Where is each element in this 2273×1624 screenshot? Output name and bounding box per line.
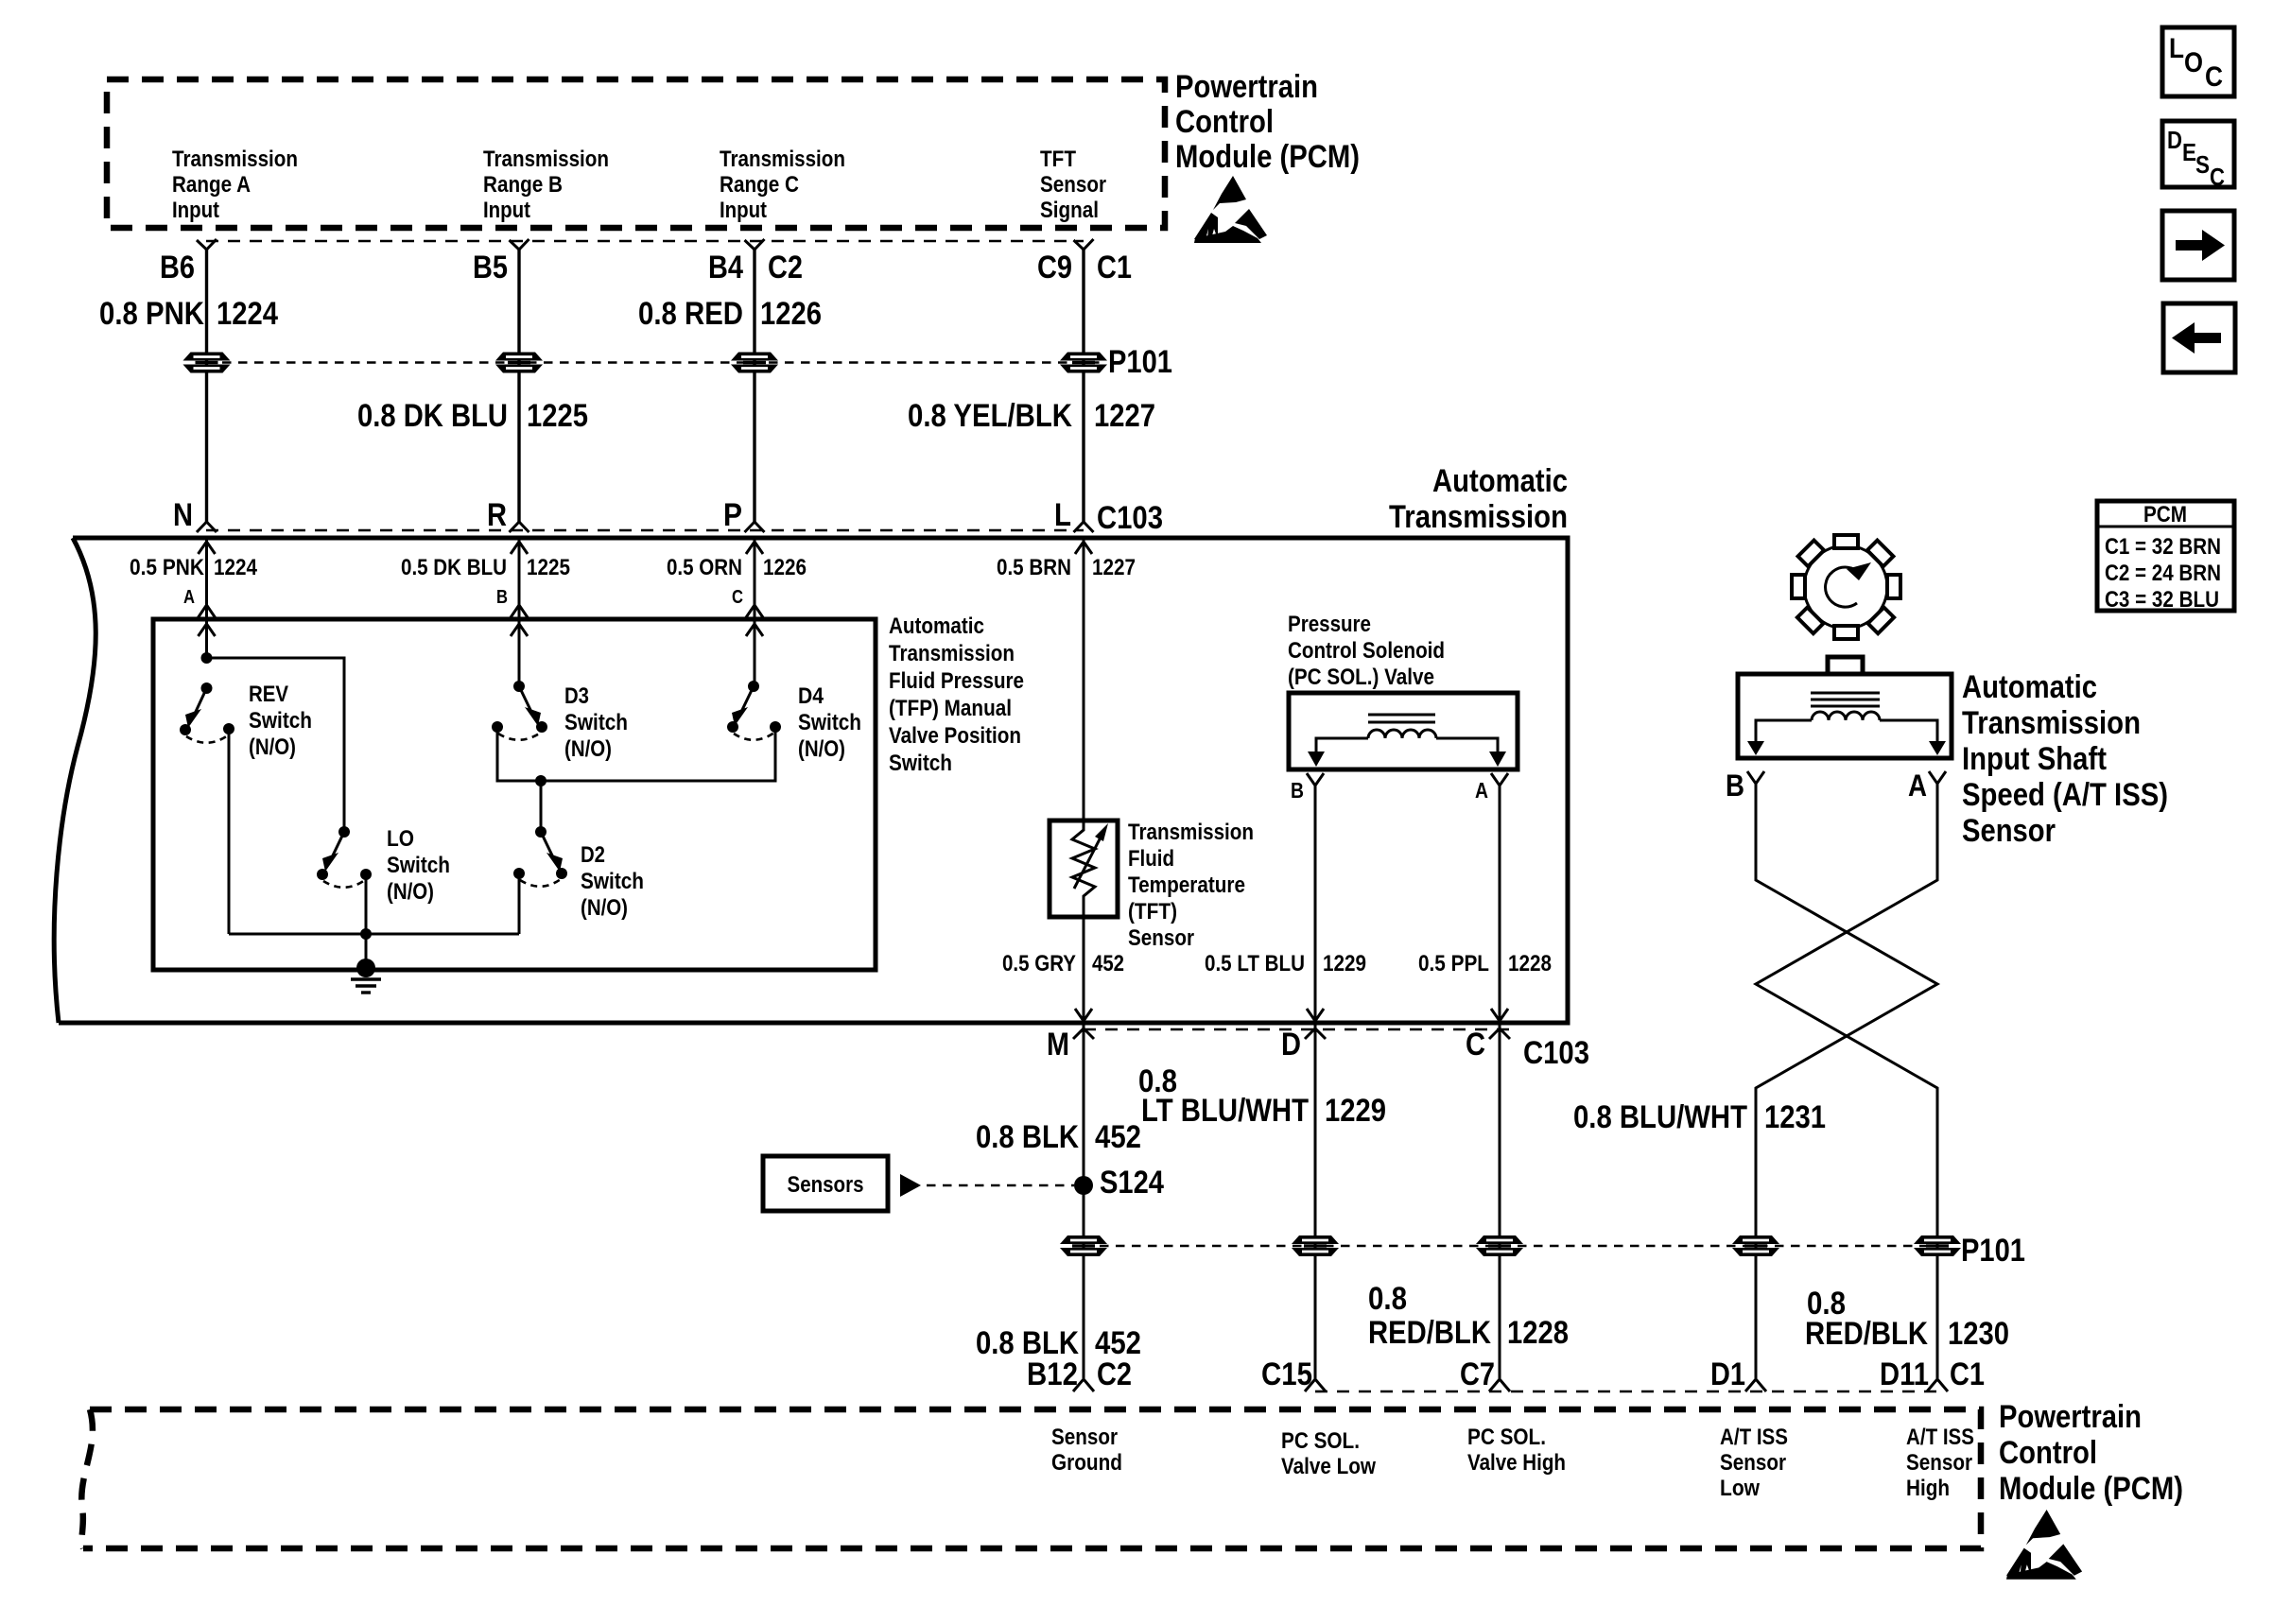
svg-text:Sensor: Sensor (1051, 1425, 1118, 1450)
TFT sensor (1050, 821, 1118, 917)
svg-text:1225: 1225 (527, 555, 570, 580)
D4 switch (727, 681, 781, 740)
pin fork solenoid B (1307, 773, 1324, 786)
svg-text:L: L (2169, 33, 2184, 64)
svg-text:Input: Input (483, 198, 530, 223)
svg-text:(PC SOL.) Valve: (PC SOL.) Valve (1288, 665, 1434, 690)
svg-text:Sensor: Sensor (1962, 813, 2056, 849)
svg-text:Transmission: Transmission (720, 147, 845, 172)
svg-text:(N/O): (N/O) (798, 736, 845, 762)
PCM top dashed box (107, 79, 1165, 228)
arrow up on wire R (511, 542, 528, 554)
pin fork P (745, 522, 765, 532)
svg-text:1230: 1230 (1948, 1316, 2009, 1352)
svg-text:Low: Low (1720, 1476, 1760, 1501)
svg-text:Switch: Switch (249, 708, 312, 734)
wire ISS B crossover (1756, 784, 1937, 1378)
svg-text:1224: 1224 (214, 555, 258, 580)
svg-text:Temperature: Temperature (1128, 872, 1245, 898)
svg-text:(N/O): (N/O) (581, 895, 628, 921)
svg-text:D3: D3 (564, 683, 589, 709)
PC solenoid valve box (1289, 693, 1518, 769)
svg-text:C9: C9 (1037, 250, 1072, 285)
svg-text:B5: B5 (473, 250, 508, 285)
P101 dashed line top (206, 361, 1102, 363)
arrow up on wire N (199, 542, 216, 554)
svg-text:Transmission: Transmission (1128, 820, 1254, 845)
svg-text:Module (PCM): Module (PCM) (1999, 1471, 2183, 1507)
title Powertrain Control Module (PCM) bottom (1999, 1399, 2183, 1507)
D3 switch (492, 681, 775, 781)
svg-text:A/T ISS: A/T ISS (1720, 1425, 1788, 1450)
PC solenoid core (1368, 715, 1435, 722)
svg-text:D4: D4 (798, 683, 824, 709)
svg-text:Input: Input (720, 198, 767, 223)
pin fork D1 (1745, 1379, 1766, 1391)
label 0.8 BLU/WHT 1231 (1573, 1099, 1826, 1135)
svg-text:C1: C1 (1097, 250, 1132, 285)
pin fork ISS A (1929, 771, 1946, 784)
label D3 Switch (N/O) (564, 683, 628, 762)
connector P101 bottom wire C7 (1476, 1235, 1523, 1256)
label 0.5 PPL 1228 (1418, 951, 1552, 976)
svg-text:TFT: TFT (1040, 147, 1076, 172)
label D2 Switch (N/O) (581, 842, 644, 921)
wire switch common rail (229, 933, 519, 936)
svg-text:1226: 1226 (760, 296, 822, 332)
wire L to TFT sensor (1083, 538, 1085, 830)
label Sensor Ground (1051, 1425, 1122, 1476)
pin fork C (746, 605, 764, 618)
wire rail to ground (365, 934, 368, 968)
svg-text:C7: C7 (1460, 1356, 1495, 1392)
label TFT Sensor Signal (1040, 147, 1106, 223)
svg-text:452: 452 (1095, 1119, 1141, 1155)
connector P101 symbol on wire 3 (731, 353, 778, 373)
svg-text:PC SOL.: PC SOL. (1281, 1428, 1360, 1454)
svg-text:C2 = 24 BRN: C2 = 24 BRN (2105, 561, 2221, 586)
label D4 Switch (N/O) (798, 683, 861, 762)
ground (351, 959, 381, 993)
PC solenoid leads with arrows (1308, 738, 1506, 767)
svg-text:0.8 BLK: 0.8 BLK (976, 1119, 1079, 1155)
arrow up wire B inside TFP (511, 624, 528, 636)
pin row dashed line bottom (1315, 1391, 1937, 1393)
ISS sensor top tab (1828, 657, 1863, 674)
label Transmission Range C Input (720, 147, 845, 223)
svg-text:D2: D2 (581, 842, 605, 868)
svg-text:(TFT): (TFT) (1128, 899, 1177, 924)
svg-text:C103: C103 (1097, 500, 1163, 536)
svg-text:B12: B12 (1027, 1356, 1078, 1392)
label A/T ISS Sensor Low (1720, 1425, 1788, 1501)
left arrow icon box (2163, 303, 2235, 372)
svg-text:REV: REV (249, 682, 288, 707)
svg-text:D: D (1281, 1027, 1301, 1063)
svg-text:L: L (1054, 497, 1071, 533)
svg-text:Signal: Signal (1040, 198, 1099, 223)
svg-text:Powertrain: Powertrain (1175, 69, 1318, 105)
svg-text:Valve Position: Valve Position (889, 723, 1021, 749)
svg-text:A: A (1475, 778, 1488, 803)
svg-text:Fluid Pressure: Fluid Pressure (889, 668, 1024, 694)
node junction rail ground (360, 928, 372, 940)
PCM bottom dashed box (81, 1409, 1981, 1548)
svg-text:C2: C2 (1097, 1356, 1132, 1392)
svg-text:S124: S124 (1100, 1165, 1164, 1201)
svg-text:Module (PCM): Module (PCM) (1175, 139, 1360, 175)
connector P101 bottom wire C15 (1292, 1235, 1339, 1256)
svg-text:1231: 1231 (1764, 1099, 1826, 1135)
label 0.5 PNK 1224 (130, 555, 258, 580)
label 0.8 RED/BLK 1230 (1805, 1286, 2009, 1352)
svg-text:C: C (732, 587, 743, 608)
label PC SOL. Valve High (1467, 1425, 1566, 1476)
title Powertrain Control Module (PCM) top (1175, 69, 1360, 175)
pin fork D11 (1927, 1379, 1948, 1391)
wire B5 to R (517, 250, 520, 522)
pin fork C9 (1074, 239, 1094, 250)
label 0.8 BLK 452 lower (976, 1325, 1141, 1361)
svg-text:RED/BLK: RED/BLK (1805, 1316, 1928, 1352)
svg-text:PCM: PCM (2143, 502, 2187, 527)
svg-text:0.5 DK BLU: 0.5 DK BLU (401, 555, 507, 580)
svg-text:0.8: 0.8 (1368, 1281, 1407, 1317)
label 0.8 BLK 452 upper (976, 1119, 1141, 1155)
svg-text:Range A: Range A (172, 172, 251, 198)
svg-text:Pressure: Pressure (1288, 612, 1371, 637)
DESC icon box (2162, 121, 2234, 191)
svg-text:B4: B4 (708, 250, 743, 285)
svg-text:0.5 BRN: 0.5 BRN (997, 555, 1071, 580)
svg-text:1224: 1224 (217, 296, 278, 332)
label Transmission Range B Input (483, 147, 609, 223)
svg-text:Valve High: Valve High (1467, 1450, 1566, 1476)
wire solenoid A down (1499, 786, 1501, 1378)
ISS sensor core (1811, 693, 1880, 706)
pin fork A (198, 605, 216, 618)
svg-text:LO: LO (387, 826, 414, 852)
label Transmission Fluid Temperature (TFT) Sensor (1128, 820, 1254, 951)
svg-text:0.5 LT BLU: 0.5 LT BLU (1205, 951, 1305, 976)
connector P101 symbol on wire 4 (1060, 353, 1107, 373)
label 0.5 LT BLU 1229 (1205, 951, 1366, 976)
wire P into box (754, 538, 756, 686)
svg-text:B: B (1726, 769, 1744, 803)
pin fork ISS B (1747, 771, 1764, 784)
connector P101 bottom wire D11 (1914, 1235, 1961, 1256)
svg-text:1228: 1228 (1508, 951, 1552, 976)
ISS sensor box (1738, 674, 1952, 758)
label 0.5 BRN 1227 (997, 555, 1136, 580)
TFT sensor wire lower (1083, 896, 1085, 1378)
arrow up on wire L (1075, 542, 1092, 554)
svg-text:C2: C2 (768, 250, 803, 285)
connector C2/C1 dashed interface line (206, 240, 1084, 243)
wire N into box (205, 538, 208, 658)
svg-text:C: C (2210, 163, 2225, 191)
svg-text:Powertrain: Powertrain (1999, 1399, 2142, 1435)
TFP switch box (153, 619, 876, 970)
wire B4 to P (753, 250, 755, 522)
label Automatic Transmission Input Shaft Speed (A/T ISS) Sensor (1962, 669, 2168, 849)
svg-text:Sensor: Sensor (1128, 925, 1194, 951)
wire C9 to L (1082, 250, 1084, 522)
svg-text:Input Shaft: Input Shaft (1962, 741, 2107, 777)
label 0.8 RED 1226 (638, 296, 822, 332)
svg-text:C: C (2205, 61, 2223, 93)
svg-text:Range B: Range B (483, 172, 563, 198)
svg-text:0.5 PPL: 0.5 PPL (1418, 951, 1489, 976)
svg-text:0.8 DK BLU: 0.8 DK BLU (357, 398, 508, 434)
svg-text:1225: 1225 (527, 398, 588, 434)
svg-text:A/T ISS: A/T ISS (1906, 1425, 1974, 1450)
svg-text:D: D (2167, 126, 2182, 154)
svg-text:0.5 ORN: 0.5 ORN (667, 555, 742, 580)
svg-text:Valve Low: Valve Low (1281, 1454, 1376, 1479)
svg-text:Switch: Switch (387, 853, 450, 878)
svg-text:1227: 1227 (1092, 555, 1136, 580)
wire D2 junction down (540, 781, 543, 832)
splice S124 (1074, 1165, 1164, 1201)
ISS sensor leads with arrows (1747, 720, 1946, 755)
arrow down wire M at box edge (1075, 1009, 1092, 1021)
svg-text:High: High (1906, 1476, 1950, 1501)
svg-text:Switch: Switch (889, 751, 952, 776)
label 0.5 DK BLU 1225 (401, 555, 570, 580)
D2 switch (513, 826, 567, 934)
svg-text:Automatic: Automatic (889, 613, 984, 639)
pin fork N (197, 522, 217, 532)
label 0.8 PNK 1224 (99, 296, 278, 332)
svg-text:Fluid: Fluid (1128, 846, 1174, 872)
svg-text:R: R (487, 497, 507, 533)
label 0.5 ORN 1226 (667, 555, 807, 580)
svg-text:C15: C15 (1261, 1356, 1312, 1392)
svg-text:Sensors: Sensors (788, 1172, 864, 1198)
connector P101 symbol on wire 1 (183, 353, 231, 373)
svg-text:C: C (1466, 1027, 1485, 1063)
svg-text:(N/O): (N/O) (387, 879, 434, 905)
label 0.8 DK BLU 1225 (357, 398, 588, 434)
pin fork B6 (197, 239, 217, 250)
pin fork R (510, 522, 529, 532)
svg-text:0.5 PNK: 0.5 PNK (130, 555, 205, 580)
ESD symbol bottom (2006, 1510, 2082, 1580)
svg-text:Ground: Ground (1051, 1450, 1122, 1476)
Sensors box (763, 1156, 888, 1211)
svg-text:C1 = 32 BRN: C1 = 32 BRN (2105, 534, 2221, 560)
wire ISS A crossover (1756, 784, 1937, 1378)
LOC icon box (2162, 27, 2234, 96)
svg-text:Automatic: Automatic (1962, 669, 2097, 705)
svg-text:Control: Control (1175, 104, 1274, 140)
gear icon (1792, 535, 1900, 639)
svg-text:Speed (A/T ISS): Speed (A/T ISS) (1962, 777, 2168, 813)
pin fork B (511, 605, 529, 618)
C103 dashed interface line (206, 529, 1084, 532)
C103 bottom dashed interface line (1084, 1028, 1511, 1031)
svg-text:B6: B6 (160, 250, 195, 285)
dashed line Sensors to S124 (927, 1184, 1074, 1186)
wire R into box (518, 538, 521, 686)
svg-text:Transmission: Transmission (889, 641, 1015, 666)
svg-text:O: O (2184, 47, 2203, 78)
label A/T ISS Sensor High (1906, 1425, 1974, 1501)
PCM connector table (2097, 501, 2234, 613)
P101 dashed line bottom (1084, 1245, 1950, 1247)
label Transmission Range A Input (172, 147, 298, 223)
svg-text:Switch: Switch (798, 710, 861, 735)
label TFP switch (889, 613, 1024, 776)
pin fork C7 (1489, 1379, 1510, 1391)
pin fork solenoid A (1491, 773, 1508, 786)
wire solenoid B down (1314, 786, 1317, 1378)
svg-text:1226: 1226 (763, 555, 807, 580)
label 0.8 LT BLU/WHT 1229 (1138, 1063, 1386, 1129)
svg-text:Switch: Switch (581, 869, 644, 894)
pin fork D (1305, 1028, 1326, 1039)
svg-text:D11: D11 (1880, 1356, 1929, 1392)
svg-text:0.8 RED: 0.8 RED (638, 296, 743, 332)
svg-text:B: B (496, 587, 508, 608)
label 0.8 YEL/BLK 1227 (908, 398, 1155, 434)
node junction REV top (201, 652, 213, 664)
svg-text:1229: 1229 (1325, 1093, 1386, 1129)
svg-text:P101: P101 (1108, 344, 1172, 380)
svg-text:P101: P101 (1961, 1233, 2025, 1269)
arrow down wire C at box edge (1491, 1009, 1508, 1021)
connector P101 bottom wire D1 (1732, 1235, 1779, 1256)
svg-text:Switch: Switch (564, 710, 628, 735)
svg-text:M: M (1047, 1027, 1069, 1063)
arrow up wire C inside TFP (746, 624, 763, 636)
pin fork B12 (1073, 1379, 1094, 1391)
label PC SOL. Valve Low (1281, 1428, 1376, 1479)
svg-text:A: A (183, 587, 195, 608)
svg-text:(N/O): (N/O) (564, 736, 612, 762)
svg-text:Sensor: Sensor (1906, 1450, 1972, 1476)
svg-text:Range C: Range C (720, 172, 799, 198)
svg-text:B: B (1291, 778, 1304, 803)
svg-text:Transmission: Transmission (1389, 499, 1568, 535)
svg-text:C103: C103 (1523, 1035, 1589, 1071)
ISS sensor coil (1812, 712, 1880, 720)
svg-text:Input: Input (172, 198, 219, 223)
arrow up on wire P (746, 542, 763, 554)
svg-text:1227: 1227 (1094, 398, 1155, 434)
LO switch (317, 826, 372, 934)
svg-text:C1: C1 (1950, 1356, 1985, 1392)
svg-text:E: E (2182, 138, 2196, 166)
right arrow icon box (2162, 211, 2234, 280)
pin fork M (1073, 1028, 1094, 1039)
svg-text:Control: Control (1999, 1435, 2097, 1471)
svg-text:P: P (723, 497, 742, 533)
arrow down wire D at box edge (1307, 1009, 1324, 1021)
svg-text:PC SOL.: PC SOL. (1467, 1425, 1546, 1450)
REV switch (180, 682, 234, 934)
svg-text:Control Solenoid: Control Solenoid (1288, 638, 1445, 664)
pin fork B5 (510, 239, 529, 250)
svg-text:A: A (1908, 769, 1927, 803)
connector P101 symbol on wire 2 (495, 353, 543, 373)
node junction D2 top (535, 775, 547, 786)
svg-text:Transmission: Transmission (1962, 705, 2141, 741)
label LO Switch (N/O) (387, 826, 450, 905)
svg-text:Transmission: Transmission (483, 147, 609, 172)
svg-text:(TFP) Manual: (TFP) Manual (889, 696, 1012, 721)
svg-text:0.5 GRY: 0.5 GRY (1002, 951, 1076, 976)
svg-text:LT BLU/WHT: LT BLU/WHT (1141, 1093, 1309, 1129)
pin fork C bottom (1489, 1028, 1510, 1039)
svg-text:C3 = 32 BLU: C3 = 32 BLU (2105, 587, 2219, 613)
svg-text:1228: 1228 (1507, 1315, 1569, 1351)
svg-text:Automatic: Automatic (1432, 463, 1568, 499)
pin fork B4 (745, 239, 765, 250)
label REV Switch (N/O) (249, 682, 312, 760)
label Pressure Control Solenoid (PC SOL.) Valve (1288, 612, 1445, 690)
svg-text:N: N (173, 497, 193, 533)
svg-text:Transmission: Transmission (172, 147, 298, 172)
wire REV junction to LO pivot (207, 658, 345, 832)
svg-text:(N/O): (N/O) (249, 734, 296, 760)
svg-text:RED/BLK: RED/BLK (1368, 1315, 1491, 1351)
PC solenoid coil (1368, 730, 1436, 738)
svg-text:0.8 YEL/BLK: 0.8 YEL/BLK (908, 398, 1072, 434)
svg-text:S: S (2195, 150, 2210, 179)
pin fork C15 (1305, 1379, 1326, 1391)
svg-text:0.8 PNK: 0.8 PNK (99, 296, 204, 332)
wire B6 to N (205, 250, 208, 522)
svg-text:Sensor: Sensor (1040, 172, 1106, 198)
label 0.5 GRY 452 (1002, 951, 1124, 976)
svg-text:D1: D1 (1710, 1356, 1745, 1392)
svg-text:452: 452 (1092, 951, 1124, 976)
pin fork L (1074, 522, 1094, 532)
label 0.8 RED/BLK 1228 (1368, 1281, 1569, 1351)
svg-text:Sensor: Sensor (1720, 1450, 1786, 1476)
arrow Sensors pointer (900, 1174, 921, 1197)
svg-text:1229: 1229 (1323, 951, 1366, 976)
arrow up wire A inside TFP (199, 624, 216, 636)
ESD symbol top (1194, 176, 1267, 243)
title Automatic Transmission (1389, 463, 1568, 535)
Automatic Transmission box outline (54, 538, 1568, 1023)
connector P101 bottom wire M (1060, 1235, 1107, 1256)
svg-text:0.8 BLU/WHT: 0.8 BLU/WHT (1573, 1099, 1747, 1135)
